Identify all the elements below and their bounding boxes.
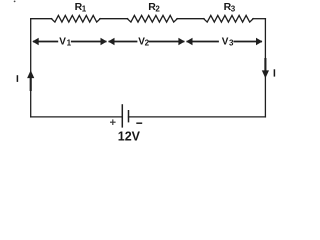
V3 arrowhead left <box>186 38 192 45</box>
resistor R3 <box>204 15 254 22</box>
svg-text:3: 3 <box>229 39 234 48</box>
wire from R3 to top-right corner <box>253 18 266 20</box>
battery B1 negative short plate <box>128 110 130 122</box>
svg-text:1: 1 <box>67 39 72 48</box>
svg-text:2: 2 <box>155 4 160 13</box>
wire right vertical side <box>264 19 266 117</box>
V1 arrow shaft right part <box>71 41 107 43</box>
wire battery to bottom-right <box>129 116 266 118</box>
stray dot top-left <box>14 1 16 3</box>
V1 arrow shaft left part <box>33 41 58 43</box>
battery plus sign <box>110 119 116 125</box>
battery minus sign <box>136 122 142 124</box>
V2 arrow shaft left part <box>109 41 138 43</box>
label I right <box>273 69 275 76</box>
V3 arrow shaft left part <box>187 41 219 43</box>
V2 arrowhead right <box>178 38 184 45</box>
current arrow I left (up) <box>30 78 32 91</box>
wire between R1 and R2 <box>100 18 128 20</box>
V2 arrowhead left <box>108 38 114 45</box>
svg-text:V: V <box>59 36 66 47</box>
wire top lead-in to R1 <box>31 18 52 20</box>
V3 arrow shaft right part <box>233 41 262 43</box>
V1 arrowhead left <box>32 38 38 45</box>
label I left <box>16 75 18 82</box>
resistor R2 <box>127 15 177 22</box>
svg-text:3: 3 <box>231 4 236 13</box>
battery B1 positive long plate <box>121 104 123 127</box>
svg-text:2: 2 <box>145 39 150 48</box>
wire left vertical side <box>30 19 32 117</box>
wire bottom-left to battery <box>31 116 123 118</box>
current arrow I right (down) <box>264 58 266 71</box>
svg-text:12V: 12V <box>118 130 141 144</box>
resistor R1 <box>51 15 100 22</box>
V1 arrowhead right <box>101 38 107 45</box>
svg-text:V: V <box>222 36 229 47</box>
svg-text:1: 1 <box>82 4 87 13</box>
V3 arrowhead right <box>256 38 262 45</box>
wire between R2 and R3 <box>177 18 204 20</box>
V2 arrow shaft right part <box>149 41 185 43</box>
